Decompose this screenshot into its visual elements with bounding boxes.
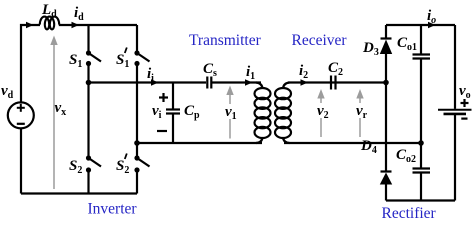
wire S2p rail bottom: [136, 170, 138, 194]
wire Co1 to node: [420, 59, 422, 169]
wire right rail upper: [454, 25, 456, 109]
svg-text:i1: i1: [246, 64, 255, 82]
wire S1-S2 rail: [87, 64, 89, 159]
svg-text:Receiver: Receiver: [292, 32, 348, 49]
svg-text:io: io: [427, 8, 436, 26]
diode D3: [380, 39, 392, 55]
wire Co1 branch upper: [420, 25, 422, 55]
wire Cp branch lower: [172, 114, 174, 144]
svg-text:Co2: Co2: [396, 147, 416, 165]
wire node to D4: [385, 83, 387, 172]
wire Cp branch upper: [172, 83, 174, 110]
wire inverter bottom: [21, 192, 137, 194]
label mask vx: [55, 101, 70, 116]
wire transmitter bottom: [137, 142, 262, 144]
wire S1 rail top: [87, 25, 89, 53]
label mask v1: [223, 104, 238, 119]
switch S1 blade: [89, 53, 102, 62]
capacitor Cp: [166, 110, 180, 114]
junction dot S2p bottom contact: [134, 167, 139, 172]
junction dot S2 bottom contact: [86, 167, 91, 172]
svg-text:Co1: Co1: [397, 35, 417, 53]
label vo minus: [461, 117, 467, 119]
arrowhead i1: [245, 79, 253, 85]
svg-text:D3: D3: [362, 40, 379, 58]
wire S1p-S2p rail: [136, 64, 138, 159]
svg-text:S2: S2: [116, 158, 129, 176]
label vo plus: [461, 99, 469, 107]
svg-text:S1: S1: [69, 52, 82, 70]
wire receiver bottom: [284, 142, 421, 144]
gray arrow vr: [356, 89, 363, 137]
wire D3 to node: [385, 54, 387, 83]
capacitor Co2: [413, 169, 431, 173]
switch S2p blade: [137, 158, 150, 167]
voltage source vd: [8, 102, 34, 128]
capacitor Co1: [413, 55, 431, 59]
svg-text:D4: D4: [360, 138, 377, 156]
junction dot S1 bottom contact: [86, 61, 91, 66]
junction dot S1p bottom contact: [134, 61, 139, 66]
capacitor Cs: [207, 77, 211, 89]
wire inductor Ld to inverter: [59, 24, 137, 26]
source vd minus sign: [17, 123, 25, 125]
wire receiver top: [288, 81, 386, 83]
switch S2 blade: [89, 158, 102, 167]
arrowhead id: [72, 22, 80, 28]
arrowhead ii: [151, 79, 159, 85]
label vi minus: [157, 130, 167, 132]
svg-text:i2: i2: [299, 63, 308, 81]
svg-text:Transmitter: Transmitter: [189, 32, 262, 49]
wire inverter top: [20, 129, 22, 194]
gray arrow v1: [226, 86, 233, 139]
wire rectifier bottom: [386, 199, 455, 201]
inductor L1 transmitter coil: [255, 83, 271, 144]
arrowhead io: [428, 22, 436, 28]
diode D4: [380, 172, 392, 185]
wire S2 rail bottom: [87, 170, 89, 194]
svg-text:vi: vi: [152, 103, 162, 121]
wire D3 rail upper: [385, 25, 387, 39]
label mask vr: [353, 103, 368, 118]
junction dot S1 top contact: [86, 50, 91, 55]
svg-text:ii: ii: [147, 66, 154, 84]
junction dot S1p top contact: [134, 50, 139, 55]
svg-text:Cp: Cp: [184, 103, 200, 121]
gray arrow v2: [317, 89, 324, 137]
wire right rail lower: [454, 115, 456, 201]
wire D4 rail bottom: [385, 185, 387, 201]
wire ii node to Cs: [89, 81, 207, 83]
svg-text:S1: S1: [116, 52, 129, 70]
node transmitter bottom junction: [134, 140, 140, 146]
svg-text:Rectifier: Rectifier: [382, 205, 437, 219]
wire Co2 branch lower: [420, 173, 422, 201]
svg-text:S2: S2: [69, 158, 82, 176]
svg-text:id: id: [74, 5, 84, 23]
inductor Ld: [40, 17, 59, 30]
inductor L2 receiver coil: [275, 83, 291, 144]
node Co1-Co2 midpoint junction: [418, 140, 424, 146]
gray arrow vx: [50, 36, 57, 190]
svg-text:vd: vd: [1, 83, 14, 101]
svg-text:vo: vo: [459, 83, 471, 101]
node rectifier input junction: [383, 80, 389, 86]
svg-text:Cs: Cs: [203, 61, 217, 79]
wire Cs to coil: [211, 81, 262, 83]
wire inverter left rail upper: [21, 25, 40, 103]
node ii junction: [86, 80, 92, 86]
junction dot S2p top contact: [134, 155, 139, 160]
source vd plus sign: [17, 104, 25, 112]
wire rectifier top: [386, 24, 455, 26]
label vi plus: [159, 93, 168, 102]
wire S1p rail top: [136, 25, 138, 53]
junction dot S2 top contact: [86, 155, 91, 160]
svg-text:C2: C2: [328, 60, 343, 78]
capacitor C2: [331, 76, 336, 90]
label mask v2: [314, 103, 329, 118]
arrowhead source current: [26, 22, 34, 28]
arrowhead i2: [301, 79, 309, 85]
svg-text:Ld: Ld: [41, 2, 57, 20]
switch S1p blade: [137, 53, 150, 62]
battery load vo: [438, 110, 472, 114]
svg-text:Inverter: Inverter: [88, 201, 138, 218]
